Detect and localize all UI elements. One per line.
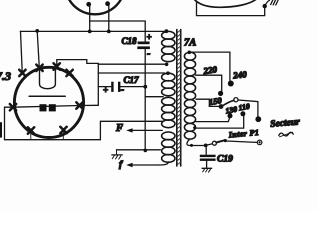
primary winding (11 loops) <box>184 52 195 139</box>
svg-text:+: + <box>103 85 108 95</box>
ground below C19 <box>202 167 212 169</box>
wire: right pin of V3 to V1 <box>80 104 99 106</box>
AC squiggle <box>279 132 294 136</box>
wire: primary top lead to 240 tap <box>191 52 230 80</box>
svg-text:240: 240 <box>232 69 248 81</box>
svg-text:7A: 7A <box>184 38 196 49</box>
pin X right <box>76 102 82 108</box>
left edge artifact bar <box>0 122 2 137</box>
node: 220 terminal dot <box>218 91 223 96</box>
wire: bus dot down to tube pin 2 <box>37 31 39 66</box>
wire: 110 tap <box>196 116 244 128</box>
node: C17 to C18 vertical <box>143 85 147 89</box>
filament U inside V3 <box>40 67 56 89</box>
svg-text:C18: C18 <box>122 36 138 46</box>
wire: winding1 bottom lead (y=64.2) <box>98 63 165 65</box>
wire: jog from pin3 up and right to vertical V1 <box>57 60 99 66</box>
choke hatch going off top edge <box>265 0 270 6</box>
wire: 150 tap <box>196 99 219 106</box>
wire: HT bus horizontal <box>20 30 166 32</box>
wire: winding2 top lead (y=73) <box>98 72 164 74</box>
svg-text:Inter P1: Inter P1 <box>227 128 259 140</box>
svg-text:C19: C19 <box>217 155 233 165</box>
anode square right <box>49 104 56 111</box>
selector pivot circle <box>234 98 238 102</box>
svg-text:F: F <box>115 123 123 134</box>
wire: primary bottom lead <box>187 139 206 146</box>
wire: branch from C18 vertical to winding2 bottom (y=96.7) <box>145 96 163 98</box>
node: winding lead blob <box>190 144 193 147</box>
transformer core laminations <box>176 30 178 167</box>
node: 150 terminal dot <box>219 104 224 109</box>
svg-text:150: 150 <box>208 95 223 107</box>
node: primary top lead dot <box>188 51 192 55</box>
secondary winding w1 (4 loops) <box>162 31 175 61</box>
selector lever to 150 <box>223 100 235 106</box>
anode line through V3 <box>13 106 80 108</box>
capacitor C19 <box>205 145 207 154</box>
svg-text:f: f <box>119 160 123 170</box>
capacitor C17 (electrolytic, horizontal) <box>98 86 111 88</box>
wire: 130 tap <box>196 118 230 122</box>
wire: selector to Secteur terminal 1 <box>238 100 258 116</box>
svg-text:+: + <box>147 32 152 42</box>
tube V1 (top-right, cut at top) envelope <box>194 0 256 7</box>
svg-text:130: 130 <box>225 105 238 116</box>
svg-text:-: - <box>121 85 124 96</box>
pin X bottom-right <box>60 127 66 133</box>
tube V2 pin dot right <box>105 1 110 6</box>
wire: w4 bottom curl to f line <box>159 162 169 165</box>
node: 110 terminal dot <box>240 111 245 116</box>
tube V3 (rectifier) envelope <box>14 67 83 137</box>
grid bar inside V3 <box>29 95 65 97</box>
svg-text:-: - <box>147 49 150 60</box>
pin X top-left <box>19 70 25 76</box>
wire: V3 bottom loop: left pin, down, bottom, up, to winding3 <box>5 107 163 140</box>
pin X top-right <box>66 70 72 76</box>
anode square left <box>40 104 47 111</box>
svg-text:220: 220 <box>202 64 218 76</box>
wire: upper jog from V2 left pin wire to C18 top <box>90 21 146 31</box>
node: 240 terminal dot <box>228 81 234 87</box>
svg-text:7.3: 7.3 <box>0 69 11 83</box>
pin X bottom-left <box>28 127 34 133</box>
secondary winding w4 (4 loops) <box>162 132 175 162</box>
Secteur terminal 2 (ring and dot) <box>257 140 262 145</box>
node: C19 branch dot <box>204 144 208 148</box>
node: 130 terminal dot <box>228 113 233 118</box>
node: Secteur terminal 1 <box>255 116 261 122</box>
node: bus junction dots <box>35 29 39 33</box>
node: dot at choke bottom <box>263 4 267 8</box>
tube V2 pin dot left <box>86 2 91 7</box>
wire: bus left leg down to tube pin 1 <box>21 31 23 71</box>
wire: V2 right pin down to HT bus <box>108 5 110 32</box>
svg-text:Secteur: Secteur <box>270 117 301 130</box>
ground symbol left <box>116 150 118 155</box>
switch lever <box>216 140 224 142</box>
svg-text:110: 110 <box>238 102 251 113</box>
switch Inter P1 pivot <box>212 141 216 145</box>
pin X top-mid-right <box>54 63 60 69</box>
wire: switch to Secteur terminal 2 <box>227 141 258 142</box>
svg-text:C17: C17 <box>124 75 140 85</box>
wire: 220 tap <box>196 75 222 91</box>
ground + wire (y=150.5) <box>117 149 161 151</box>
tube V2 (upper-left, cut at top) envelope <box>69 0 120 14</box>
secondary winding w2 (3 loops) <box>162 73 175 96</box>
node: C18 vertical meets ground wire <box>144 149 148 153</box>
wire: V2 left pin down to HT bus <box>89 5 91 31</box>
secondary winding w3 (4 loops) <box>162 97 175 127</box>
pin X left <box>10 104 16 110</box>
node: w2 top lead dot <box>166 71 170 75</box>
wire: bottom pin stubs <box>31 131 64 140</box>
pin X top-mid-left <box>36 65 42 71</box>
wire: vertical V1 (x=98.3) from jog down to right-pin wire <box>97 63 99 105</box>
node: w1 bottom lead dot <box>165 63 169 67</box>
wire: V1 loop down-right to choke <box>197 2 265 16</box>
capacitor C18 (electrolytic, vertical) <box>144 31 146 41</box>
